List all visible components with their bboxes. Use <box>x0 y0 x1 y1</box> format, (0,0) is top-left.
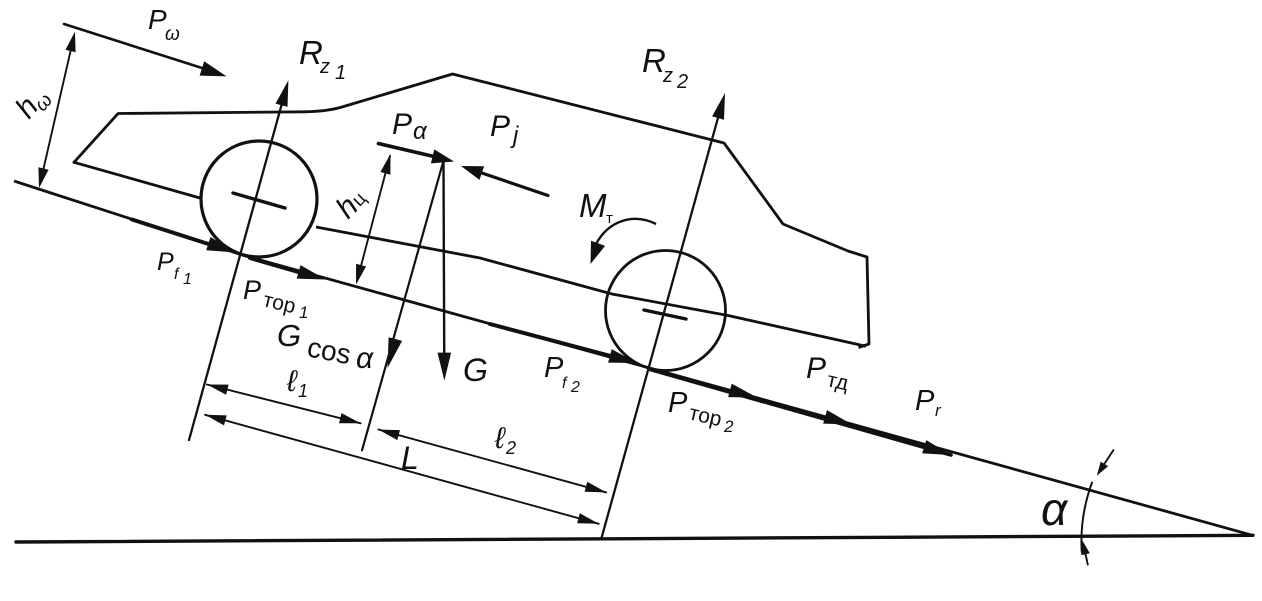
svg-text:ℓ: ℓ <box>494 422 506 455</box>
svg-text:2: 2 <box>570 379 580 396</box>
svg-text:z: z <box>319 56 330 78</box>
svg-text:α: α <box>413 118 428 145</box>
car front face edge <box>74 114 118 163</box>
arrowhead l2 left <box>378 430 400 441</box>
P_omega arrow line <box>64 24 213 72</box>
G gravity arrow line <box>442 162 445 373</box>
arrowhead G <box>438 353 452 381</box>
M_t moment curved arrow <box>596 219 656 244</box>
P_f1 arrow thick segment <box>132 220 224 250</box>
svg-text:P: P <box>392 108 412 141</box>
front wheel center dash <box>233 193 285 208</box>
label h_omega <box>9 80 57 127</box>
svg-text:P: P <box>806 352 826 385</box>
svg-text:P: P <box>544 352 564 384</box>
car body outline (hood, windshield, roof, rear window, trunk, tail) <box>118 74 869 348</box>
svg-text:P: P <box>157 248 174 276</box>
svg-text:z: z <box>662 65 673 87</box>
CG extension line (G cos a axis) <box>362 163 443 451</box>
rear wheel center dash <box>644 310 686 319</box>
arrowhead P_tor1 <box>297 265 326 279</box>
arrowhead l1 left <box>207 385 229 395</box>
label h_c <box>330 182 373 225</box>
svg-text:2: 2 <box>723 417 734 436</box>
svg-text:P: P <box>490 110 510 143</box>
arrowhead M_t <box>591 241 606 264</box>
P_alpha arrow line <box>378 144 436 158</box>
arrowhead P_j <box>461 166 484 180</box>
arrowhead L right <box>577 513 599 524</box>
arrowhead P_omega <box>200 61 227 76</box>
arrowhead alpha bottom <box>1081 541 1090 556</box>
L dimension line <box>205 415 599 524</box>
arrowhead P_tor2 <box>728 384 757 398</box>
arrowhead alpha top <box>1097 462 1108 476</box>
l1 dimension line <box>207 385 361 424</box>
rear axle normal line (R_z2 axis / extension line) <box>602 99 724 537</box>
l2 dimension line <box>378 430 606 493</box>
arrowhead R_z1 <box>276 80 289 107</box>
arrowhead h_omega top <box>66 32 76 53</box>
h_c dimension line <box>357 156 390 281</box>
ground horizontal line <box>16 535 1253 542</box>
svg-text:P: P <box>668 387 688 419</box>
svg-text:α: α <box>1041 483 1069 535</box>
alpha arc bottom leader arrow <box>1085 550 1088 565</box>
svg-text:2: 2 <box>505 438 516 458</box>
arrowhead P_alpha <box>431 149 454 163</box>
arrowhead P_f2 <box>608 349 637 363</box>
arrowhead h_omega bottom <box>38 167 48 188</box>
P_tor1 arrow <box>250 258 312 276</box>
front wheel <box>201 141 317 257</box>
P_f2 arrow <box>490 324 624 360</box>
svg-text:1: 1 <box>335 62 346 84</box>
incline road surface line <box>14 181 1253 535</box>
svg-text:M: M <box>579 187 607 224</box>
rear wheel <box>606 251 726 371</box>
arrowhead P_r <box>922 440 951 455</box>
car underbody line front section <box>74 162 200 198</box>
arrowhead P_td <box>823 410 852 424</box>
h_omega dimension line <box>40 36 74 184</box>
svg-text:L: L <box>401 440 419 476</box>
P_j arrow line <box>476 171 548 196</box>
alpha arc top leader arrow <box>1101 450 1113 469</box>
svg-text:G: G <box>463 352 488 388</box>
arrowhead h_c top <box>380 154 390 175</box>
arrowhead G cos a <box>388 337 403 368</box>
svg-text:ℓ: ℓ <box>286 365 298 398</box>
alpha angle arc <box>1081 482 1092 553</box>
svg-text:P: P <box>243 275 261 305</box>
front axle normal line (R_z1 axis / extension line) <box>189 87 287 440</box>
arrowhead P_f1 <box>206 237 236 253</box>
svg-text:P: P <box>915 385 935 417</box>
svg-text:1: 1 <box>183 271 192 288</box>
svg-text:α: α <box>356 342 374 375</box>
arrowhead l1 right <box>339 413 361 423</box>
incline thick segment with traction forces <box>649 369 951 455</box>
svg-text:т: т <box>606 210 613 227</box>
svg-text:ω: ω <box>165 24 180 45</box>
car underbody line rear section (passes through rear wheel) <box>316 227 866 346</box>
arrowhead R_z2 <box>712 93 725 120</box>
svg-text:G: G <box>277 318 301 353</box>
arrowhead h_c bottom <box>356 264 366 285</box>
arrowhead L left <box>205 415 227 426</box>
svg-text:1: 1 <box>298 381 308 401</box>
arrowhead l2 right <box>585 482 607 493</box>
svg-text:2: 2 <box>676 71 688 93</box>
